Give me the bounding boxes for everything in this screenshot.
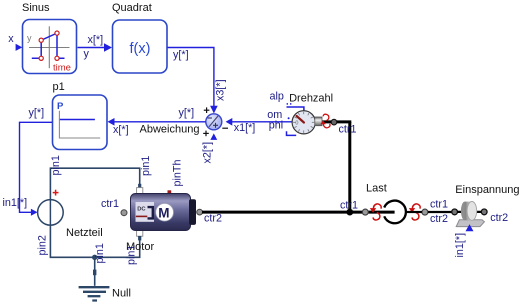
- svg-text:p1: p1: [53, 81, 65, 93]
- phi stub: [287, 131, 297, 135]
- x1 input from om: [222, 118, 292, 134]
- red rotation symbol left of Last: [370, 204, 381, 220]
- Last inertia circle: [384, 201, 406, 224]
- svg-text:ctr1: ctr1: [101, 198, 119, 210]
- Drehzahl gauge: [292, 111, 315, 134]
- plus sign for x3 input: [204, 107, 210, 113]
- svg-text:y: y: [27, 33, 32, 43]
- block Quadrat f(x): [113, 20, 168, 73]
- om dot: [288, 117, 290, 119]
- svg-text:x[*]: x[*]: [113, 124, 129, 136]
- svg-text:ctr2: ctr2: [430, 213, 448, 225]
- Last right pin dot: [422, 209, 428, 215]
- svg-text:y: y: [84, 48, 90, 60]
- summing block Abweichung: [206, 114, 222, 130]
- wire Quadrat to Abweichung (x3): [168, 48, 227, 114]
- alp om phi labels: [267, 90, 284, 131]
- wire Drehzahl ctr to junction: [322, 122, 353, 216]
- mechanical wire Last to Einspannung: [406, 211, 422, 213]
- svg-text:ctr2: ctr2: [490, 212, 508, 224]
- svg-text:y[*]: y[*]: [173, 49, 189, 61]
- gauge ctr pin dot: [331, 119, 337, 125]
- electrical wire pin1 top: [50, 168, 139, 200]
- svg-text:Abweichung: Abweichung: [140, 124, 200, 136]
- svg-text:pin1: pin1: [50, 155, 62, 175]
- svg-text:Motor: Motor: [126, 241, 154, 253]
- red rotation symbol at gauge: [320, 114, 330, 128]
- Motor top pin: [137, 184, 143, 194]
- electrical wire pin2 bottom: [50, 225, 139, 257]
- svg-text:0: 0: [295, 121, 298, 127]
- svg-text:Quadrat: Quadrat: [112, 2, 152, 14]
- svg-text:pin2: pin2: [37, 235, 49, 255]
- wire Sinus to Quadrat: [78, 34, 113, 60]
- ground Null: [79, 287, 110, 300]
- svg-text:P: P: [57, 101, 64, 112]
- svg-text:in1[*]: in1[*]: [3, 197, 28, 209]
- in1 input arrow Einspannung: [454, 224, 474, 257]
- gauge shaft cylinder: [315, 117, 322, 126]
- svg-text:Netzteil: Netzteil: [66, 227, 103, 239]
- Netzteil source circle: [38, 190, 64, 226]
- Motor left pin ctr1: [121, 210, 127, 216]
- svg-text:phi: phi: [269, 120, 283, 132]
- Motor body: [131, 194, 203, 231]
- svg-text:ctr1: ctr1: [339, 123, 357, 135]
- svg-text:y[*]: y[*]: [29, 107, 45, 119]
- svg-text:Last: Last: [366, 183, 387, 195]
- Motor bottom pin: [137, 230, 143, 241]
- block p1 (plot): [53, 95, 108, 150]
- wire p1 to Netzteil (in1): [3, 107, 53, 216]
- svg-text:Null: Null: [112, 288, 131, 300]
- svg-text:pin1: pin1: [140, 156, 152, 176]
- Einspannung left pin dot: [452, 209, 458, 215]
- Einspannung right pin dot: [481, 209, 487, 215]
- mechanical wire Motor to Last: [202, 211, 395, 214]
- ctr1 ctr2 labels between: [430, 199, 448, 226]
- Einspannung clamp icon: [456, 202, 484, 227]
- svg-text:M: M: [158, 206, 169, 221]
- svg-text:f(x): f(x): [130, 41, 151, 57]
- svg-text:x[*]: x[*]: [88, 34, 104, 46]
- svg-text:time: time: [53, 63, 71, 74]
- Motor pinTh (thermal pin): [168, 190, 172, 194]
- svg-text:alp: alp: [270, 90, 284, 102]
- wire Abweichung to p1: [108, 107, 206, 136]
- svg-text:pinTh: pinTh: [172, 159, 184, 186]
- svg-text:y[*]: y[*]: [179, 107, 195, 119]
- svg-text:Sinus: Sinus: [22, 2, 50, 14]
- svg-text:in1[*]: in1[*]: [454, 233, 466, 258]
- red rotation symbol right of Last: [409, 204, 420, 220]
- svg-text:ctr1: ctr1: [340, 200, 358, 212]
- svg-text:Drehzahl: Drehzahl: [289, 92, 333, 104]
- svg-text:x1[*]: x1[*]: [234, 122, 256, 134]
- Einspannung shaft line: [457, 211, 481, 213]
- alp stub: [287, 104, 304, 111]
- junction to Null: [92, 255, 97, 286]
- svg-text:ctr2: ctr2: [204, 213, 222, 225]
- input x of Sinus: [8, 33, 22, 51]
- svg-text:x: x: [8, 33, 14, 45]
- svg-text:ctr1: ctr1: [430, 199, 448, 211]
- svg-text:pin1: pin1: [94, 243, 106, 263]
- block Sinus (TimeTable source): [23, 20, 77, 74]
- svg-text:x2[*]: x2[*]: [202, 142, 214, 164]
- x2 input arrow (unconnected): [202, 131, 218, 164]
- svg-text:DC: DC: [137, 207, 146, 213]
- svg-text:Einspannung: Einspannung: [455, 184, 519, 196]
- Last left pin dot: [362, 209, 368, 215]
- svg-text:x3[*]: x3[*]: [215, 79, 227, 101]
